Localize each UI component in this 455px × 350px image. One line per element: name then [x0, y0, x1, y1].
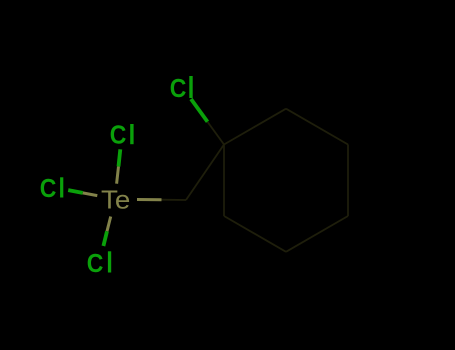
wire: ClA-C2 bond carbon half	[208, 122, 225, 145]
wire: Te-ClD bond olive half	[107, 217, 111, 232]
atom label Cl B: l glyph	[130, 124, 133, 144]
wire: Te-ClD bond green half	[103, 231, 107, 246]
wire: Te-C1 bond carbon half	[162, 199, 187, 201]
wire: ring edge TR-BR	[347, 145, 349, 217]
svg-text:C: C	[170, 75, 187, 103]
wire: Te-ClC bond olive half	[83, 193, 98, 196]
wire: ring edge TL-T	[224, 109, 286, 145]
wire: Te-ClB bond olive half	[117, 167, 119, 184]
wire: ring edge BR-B	[286, 216, 348, 252]
wire: ring edge B-BL	[224, 216, 286, 252]
atom label Cl A: l glyph	[189, 76, 192, 98]
wire: ClA-C2 bond green half	[191, 99, 208, 122]
svg-text:Te: Te	[101, 186, 130, 215]
wire: Te-C1 bond olive half	[137, 198, 162, 201]
svg-text:C: C	[40, 175, 57, 203]
svg-text:C: C	[87, 250, 104, 278]
svg-text:C: C	[110, 121, 127, 149]
wire: ring edge BL-TL	[223, 145, 225, 217]
atom label Cl C: l glyph	[60, 177, 63, 197]
wire: ring edge T-TR	[286, 109, 348, 145]
atom label Cl D: l glyph	[108, 251, 111, 272]
wire: C1-C2 chain bond	[186, 145, 224, 201]
wire: Te-ClC bond green half	[68, 190, 83, 193]
wire: Te-ClB bond green half	[119, 149, 121, 166]
